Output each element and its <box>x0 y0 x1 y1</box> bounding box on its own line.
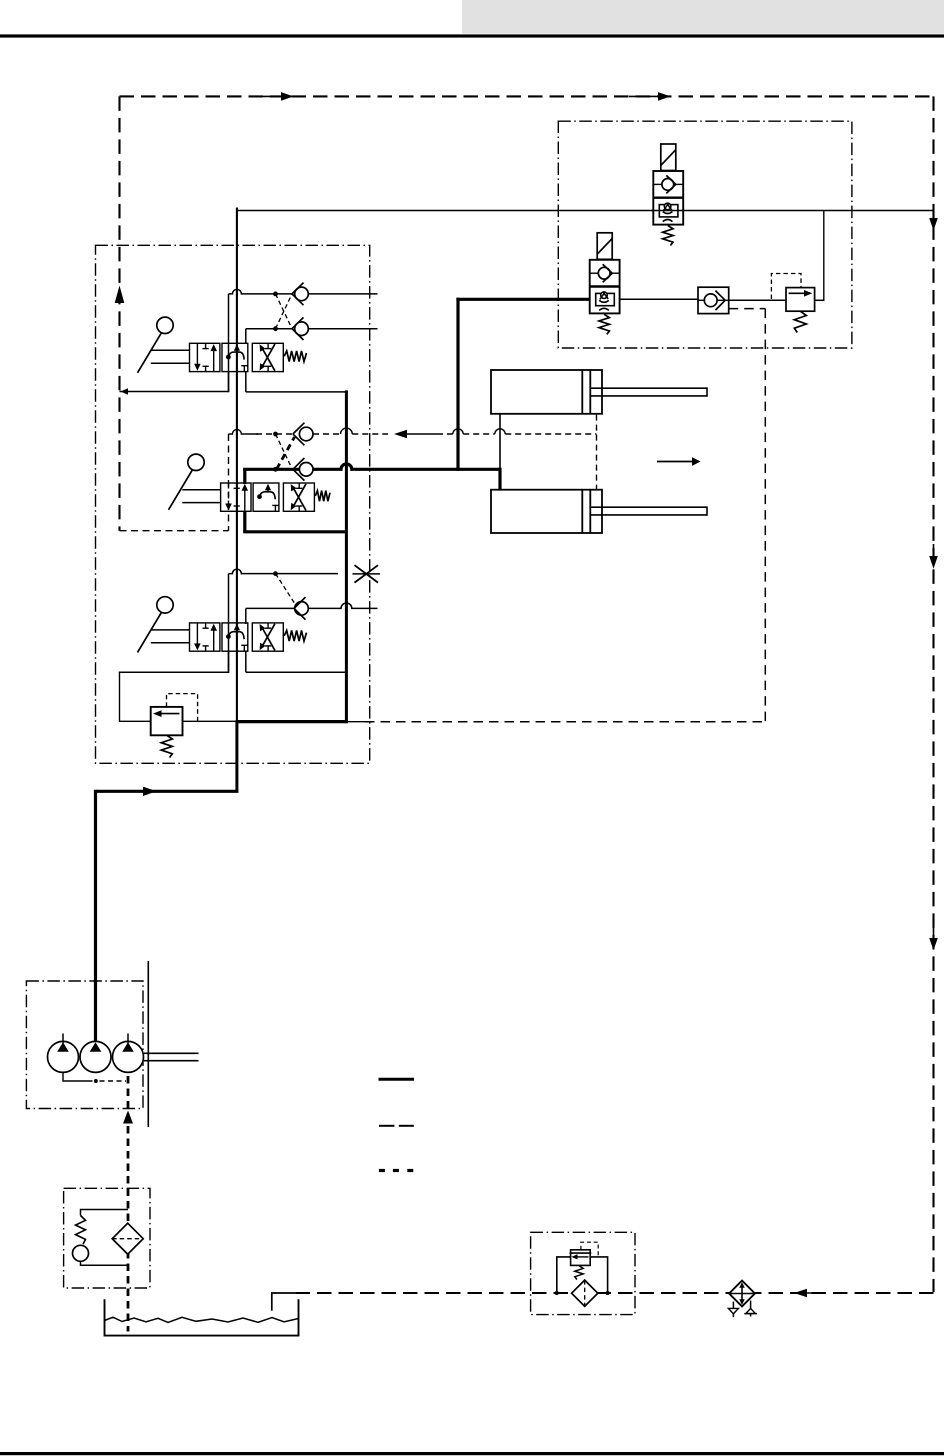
wire thick valve2 bottom port <box>243 511 246 531</box>
wire supply main vertical thick to pump <box>235 720 238 791</box>
wire relief rail thin <box>120 720 237 722</box>
pilot cross dashed thick valve2 <box>277 437 295 469</box>
wire pilot dashed from check valve <box>729 308 766 310</box>
wire thick work line to cylinders with hop <box>243 464 500 469</box>
filter F2 element <box>572 1280 598 1306</box>
solenoid valve SV1 <box>661 144 676 171</box>
check valve CV3 body <box>698 287 729 313</box>
wire thick valve2 bypass rail <box>243 530 346 533</box>
check valve valve3 <box>295 602 309 616</box>
plug symbol closed port <box>355 565 379 582</box>
legend solid line <box>379 1078 415 1081</box>
arrow drain right 1 <box>933 206 935 218</box>
node valve1 B junction <box>273 326 278 331</box>
filter F1 element <box>112 1223 143 1254</box>
directional valve DV2 body <box>221 483 251 511</box>
check valve valve2 work <box>299 463 313 477</box>
spring RV2 <box>794 311 806 332</box>
spring RV1 <box>161 735 172 757</box>
cylinder CYL1 rod <box>590 387 707 389</box>
arrow pump discharge <box>143 787 157 796</box>
wire rod-end pilot dashed between cylinders <box>596 415 598 490</box>
spring DV1 <box>284 351 306 362</box>
wire RV2 outlet <box>815 299 825 301</box>
solenoid valve SV2 <box>597 233 612 259</box>
wire pump discharge horizontal thick <box>96 790 239 793</box>
pump enclosure dash-dot <box>26 981 143 1109</box>
wire RV2 riser to main line <box>823 211 825 301</box>
arrow valve1 T rail tick <box>121 388 129 395</box>
wire valve3 B line with hop <box>229 569 272 574</box>
wire pilot dashed rail bottom of cylinder box <box>365 721 765 723</box>
return filter enclosure dash-dot <box>531 1232 635 1314</box>
wire valve3 A line <box>246 607 294 609</box>
arrow drain right 3 <box>933 926 935 938</box>
spring SV1 <box>663 226 673 246</box>
relief valve RV1 body <box>151 707 183 735</box>
wire thick rail to third valve loop <box>237 720 347 723</box>
pump P3 <box>113 1041 144 1072</box>
arrow pilot to check valve <box>394 430 407 439</box>
header rule <box>0 34 944 37</box>
wire drain dashed right <box>932 96 934 1292</box>
arrow drain left up <box>115 286 125 304</box>
arrow drain right 2 <box>933 544 935 556</box>
spring SV2 <box>599 314 609 334</box>
wire suction line thick dashed <box>127 1076 130 1332</box>
legend dotted line <box>379 1169 385 1172</box>
tank fluid level wavy <box>105 1317 299 1322</box>
wire valve3 A line right with hop <box>308 603 378 608</box>
relief valve RV2 body <box>786 288 815 312</box>
breather legs <box>732 1302 734 1318</box>
breather intake check <box>746 1308 756 1313</box>
check valve bypass <box>73 1245 89 1261</box>
wire valve3 T drop <box>228 651 230 673</box>
spring bypass check <box>76 1216 86 1245</box>
wire return filter bypass left <box>557 1257 571 1293</box>
solenoid block enclosure dash-dot <box>558 121 852 348</box>
pump P2 <box>80 1041 111 1072</box>
node valve1 A junction <box>273 292 278 297</box>
cylinder CYL1 body <box>491 370 602 414</box>
directional valve DV1 body <box>190 343 220 371</box>
wire valve1 A line with hop <box>229 289 272 294</box>
wire thick drop to lower cylinder <box>498 468 501 490</box>
arrow cylinder motion <box>657 461 692 463</box>
wire main line to solenoid block <box>236 210 933 212</box>
relief valve RV2 pilot dashed <box>771 274 801 300</box>
wire thick solenoid feed drop <box>456 298 459 471</box>
wire suction filter bypass top <box>81 1210 129 1216</box>
wire left return drop <box>119 672 121 722</box>
wire valve1 B port riser <box>245 329 247 344</box>
pump P1 <box>48 1041 79 1072</box>
legend dashed line <box>379 1125 395 1127</box>
wire CYL1 cap port <box>499 414 501 470</box>
wire pump riser thick <box>94 790 97 1048</box>
wire thick bypass vertical <box>345 390 348 723</box>
arrow drain top 1 <box>252 95 281 97</box>
wire pilot dashed right edge of cylinder box <box>764 309 766 722</box>
node bypass left <box>555 1291 559 1295</box>
node valve3 junction <box>273 571 278 576</box>
relief valve RV3 body <box>571 1250 591 1266</box>
wire drain dashed left <box>118 96 120 530</box>
wire thick solenoid feed horizontal <box>456 298 589 301</box>
directional valve DV3 body <box>190 623 220 651</box>
spring DV2 <box>315 491 330 502</box>
valve block enclosure dash-dot <box>96 245 370 763</box>
wire return dashed bottom <box>296 1292 934 1294</box>
wire SV2 to check valve <box>620 298 699 300</box>
wire pilot line cylinders dashed with hops <box>229 430 259 435</box>
wire supply main vertical <box>236 208 238 722</box>
directional valve DV3 lever <box>157 597 173 613</box>
wire valve1 P rail to bypass <box>246 391 348 393</box>
wire valve3 P drop <box>245 651 247 672</box>
footer rule <box>0 1452 944 1455</box>
spring DV3 <box>284 631 306 642</box>
cylinder CYL2 rod <box>590 506 707 508</box>
cylinder CYL2 body <box>491 490 602 533</box>
arrow suction up <box>123 1111 133 1124</box>
pilot dashed diagonal valve3 <box>276 574 297 606</box>
pump shaft double line <box>144 1052 199 1054</box>
breather B1 <box>729 1281 755 1307</box>
wire CV3 to relief RV2 <box>729 299 786 301</box>
spring RV3 <box>575 1266 583 1280</box>
wire valve2 pilot rail dashed <box>120 530 229 532</box>
wire valve1 B line <box>246 328 292 330</box>
relief valve RV3 pilot dashed <box>581 1242 598 1257</box>
wire drain dashed top <box>120 95 932 97</box>
check valve valve1 A <box>295 287 309 301</box>
tank T1 <box>105 1299 299 1335</box>
relief valve RV1 pilot dashed <box>167 694 198 722</box>
node valve2 work junction <box>273 467 278 472</box>
pilot cross dashed thin valve2 <box>276 434 292 467</box>
wire valve1 A port riser <box>228 294 230 392</box>
wire valve3 B riser <box>228 574 230 673</box>
wire valve3 A riser <box>245 608 247 624</box>
breather exhaust check <box>728 1308 738 1313</box>
arrow return bottom <box>807 1292 825 1294</box>
check valve valve1 B <box>295 322 309 336</box>
check valve valve2 pilot <box>299 427 313 441</box>
suction filter enclosure dash-dot <box>64 1188 150 1288</box>
wire return filter bypass right <box>590 1257 607 1293</box>
wire thin rail continuation <box>346 721 365 723</box>
header gray band <box>462 0 944 34</box>
wire valve1 T drop <box>228 371 230 392</box>
node valve2 pilot junction <box>273 432 278 437</box>
node bypass right <box>606 1291 610 1295</box>
directional valve DV1 lever <box>157 317 173 333</box>
wire valve2 pilot corner drop dashed <box>228 434 230 531</box>
wire valve1 A line to port <box>306 293 378 295</box>
wire valve1 T rail <box>120 391 230 393</box>
wire valve3 P rail right <box>246 671 348 673</box>
directional valve DV2 lever <box>188 454 204 470</box>
wire suction filter bypass bottom <box>81 1261 129 1265</box>
pump drive shaft vertical <box>147 961 149 1127</box>
wire pump suction manifold <box>63 1072 93 1081</box>
wire return drop to tank <box>271 1293 273 1311</box>
wire valve1 P drop <box>245 371 247 392</box>
wire thick valve2 top port <box>243 468 246 484</box>
wire valve3 T rail left <box>119 671 229 673</box>
arrow drain top 2 <box>629 95 658 97</box>
pilot cross dashed valve1 <box>276 294 293 329</box>
